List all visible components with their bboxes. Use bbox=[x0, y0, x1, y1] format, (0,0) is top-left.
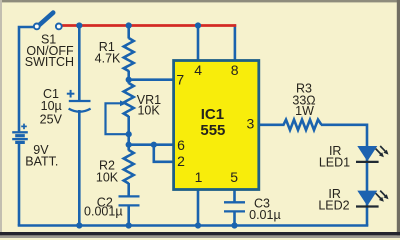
svg-text:IC1: IC1 bbox=[201, 106, 224, 123]
svg-text:0.01µ: 0.01µ bbox=[249, 208, 281, 222]
svg-text:5: 5 bbox=[230, 169, 238, 185]
svg-text:7: 7 bbox=[176, 71, 184, 87]
svg-text:25V: 25V bbox=[40, 112, 63, 126]
svg-text:4.7K: 4.7K bbox=[95, 52, 121, 66]
svg-text:10K: 10K bbox=[137, 104, 160, 118]
svg-text:8: 8 bbox=[231, 62, 239, 78]
svg-text:1W: 1W bbox=[295, 104, 314, 118]
svg-text:1: 1 bbox=[195, 169, 203, 185]
svg-text:6: 6 bbox=[177, 137, 185, 153]
svg-text:SWITCH: SWITCH bbox=[25, 55, 74, 69]
svg-text:555: 555 bbox=[200, 122, 225, 139]
svg-text:10µ: 10µ bbox=[41, 99, 62, 113]
svg-text:10K: 10K bbox=[96, 171, 119, 185]
svg-text:LED1: LED1 bbox=[319, 155, 350, 169]
svg-text:LED2: LED2 bbox=[318, 199, 349, 213]
svg-text:2: 2 bbox=[177, 153, 185, 169]
svg-text:4: 4 bbox=[194, 62, 202, 78]
svg-text:BATT.: BATT. bbox=[25, 154, 58, 168]
svg-text:3: 3 bbox=[247, 116, 255, 132]
svg-text:0.001µ: 0.001µ bbox=[84, 204, 122, 218]
